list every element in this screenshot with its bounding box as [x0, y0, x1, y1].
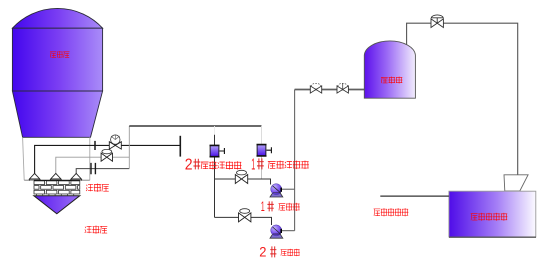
svg-text:1: 1 [261, 198, 265, 214]
svg-text:1: 1 [251, 157, 255, 174]
svg-text:2: 2 [259, 244, 266, 260]
svg-text:2: 2 [185, 156, 193, 173]
